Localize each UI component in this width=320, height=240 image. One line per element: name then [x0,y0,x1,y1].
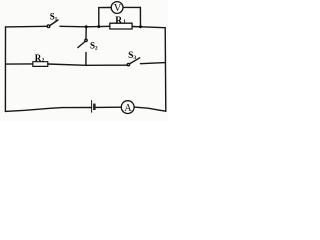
wire voltmeter top left [99,7,111,9]
wire ammeter to bottom right [134,107,166,111]
junction dot C [139,25,142,28]
wire R1 to right corner [132,27,165,28]
battery short plate [93,104,96,110]
wire battery to ammeter [96,106,121,108]
wire voltmeter branch right vertical [139,7,141,26]
ammeter A circle [121,101,134,114]
wire right side [164,28,167,112]
wire voltmeter top right [123,6,140,8]
svg-text:A: A [124,103,132,114]
resistor R2 [33,62,48,67]
switch S2 pivot [85,39,87,41]
wire middle left [6,63,33,65]
svg-text:3: 3 [133,55,136,61]
wire middle S3 to right [140,63,165,64]
wire S1 to junctions [60,25,110,28]
svg-text:V: V [114,3,122,14]
switch S2 branch upper wire [85,27,87,39]
switch S3 [127,63,129,65]
svg-text:1: 1 [123,19,126,25]
battery long plate [91,101,93,113]
junction dot A [85,25,88,28]
wire top left to S1 [6,25,47,28]
svg-text:2: 2 [42,57,45,63]
switch S1 [47,25,50,28]
svg-text:R: R [115,16,122,26]
junction dot B [97,25,100,28]
svg-text:2: 2 [95,45,98,51]
svg-text:1: 1 [55,16,58,22]
voltmeter V circle [111,2,123,14]
wire middle R2 to S3 [48,64,127,65]
switch S2 branch lower wire [85,52,87,65]
wire bottom left [5,108,91,112]
wire voltmeter branch left vertical [98,8,100,27]
resistor R1 [110,23,132,29]
wire left side [4,27,6,112]
